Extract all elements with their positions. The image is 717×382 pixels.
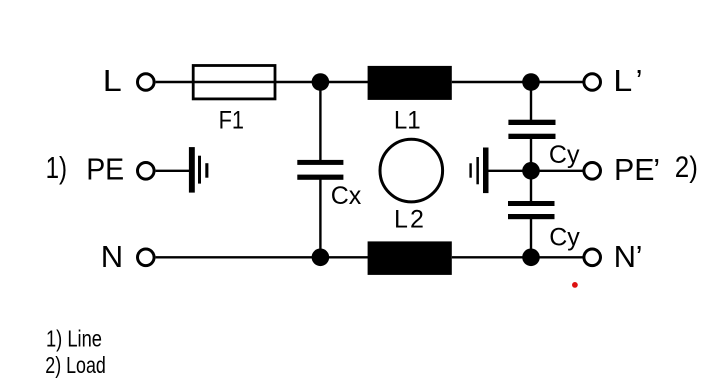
svg-text:Cy: Cy xyxy=(549,141,580,169)
chassis ground (left, protective earth) xyxy=(189,147,209,193)
toroid core of common-mode choke xyxy=(380,139,443,202)
wire N terminal to node C xyxy=(156,256,321,258)
terminal PE' xyxy=(584,163,601,180)
capacitor Cx xyxy=(297,160,343,180)
svg-text:2) Load: 2) Load xyxy=(45,352,105,378)
svg-text:N: N xyxy=(101,239,123,274)
wire capacitor Cy upper to PE node xyxy=(530,138,532,171)
svg-text:L: L xyxy=(613,63,632,98)
junction PE node xyxy=(522,162,540,180)
wire node A down to capacitor Cx xyxy=(319,82,321,161)
wire chassis ground to PE node xyxy=(489,170,532,172)
svg-text:1): 1) xyxy=(46,150,68,185)
chassis ground (right) xyxy=(469,148,488,194)
svg-text:2): 2) xyxy=(675,151,698,184)
svg-text:Cx: Cx xyxy=(331,182,362,210)
wire fuse F1 to node A xyxy=(276,81,320,83)
svg-text:’: ’ xyxy=(636,63,643,98)
inductor L2 winding (neutral side of common-mode choke) xyxy=(368,241,452,275)
terminal L' xyxy=(584,74,601,91)
svg-text:’: ’ xyxy=(636,239,643,274)
junction node A xyxy=(312,73,330,91)
wire PE node down to capacitor Cy lower xyxy=(530,171,532,202)
wire PE node to terminal PE' xyxy=(531,170,584,172)
wire node B to terminal L' xyxy=(531,81,584,83)
svg-text:F1: F1 xyxy=(219,107,244,135)
svg-text:L: L xyxy=(103,63,122,98)
capacitor Cy (lower) xyxy=(508,201,555,219)
wire PE terminal to chassis ground xyxy=(156,170,190,172)
junction node B xyxy=(522,73,540,91)
wire inductor L2 to node D xyxy=(452,256,531,258)
terminal PE xyxy=(138,163,155,180)
svg-text:1) Line: 1) Line xyxy=(46,326,102,352)
svg-text:L 2: L 2 xyxy=(394,206,424,234)
wire node B down to capacitor Cy upper xyxy=(530,82,532,121)
wire L terminal to fuse F1 xyxy=(156,81,193,83)
red marker dot xyxy=(572,282,578,288)
wire capacitor Cy lower to node D xyxy=(530,218,532,257)
terminal L xyxy=(138,74,155,91)
inductor L1 winding (line side of common-mode choke) xyxy=(368,66,452,100)
wire node A to inductor L1 xyxy=(320,81,368,83)
wire capacitor Cx down to node C xyxy=(319,179,321,257)
svg-text:L1: L1 xyxy=(394,107,421,135)
terminal N' xyxy=(584,249,601,266)
svg-text:N: N xyxy=(614,239,636,274)
svg-text:PE: PE xyxy=(86,151,124,186)
svg-text:PE: PE xyxy=(614,152,655,187)
junction node D xyxy=(522,248,540,266)
capacitor Cy (upper) xyxy=(508,120,555,139)
wire node C to inductor L2 xyxy=(320,256,368,258)
wire inductor L1 to node B xyxy=(452,81,531,83)
svg-text:’: ’ xyxy=(653,152,660,187)
svg-text:Cy: Cy xyxy=(549,224,580,252)
terminal N xyxy=(138,249,155,266)
fuse F1 xyxy=(193,66,276,99)
wire node D to terminal N' xyxy=(531,256,584,258)
junction node C xyxy=(312,248,330,266)
